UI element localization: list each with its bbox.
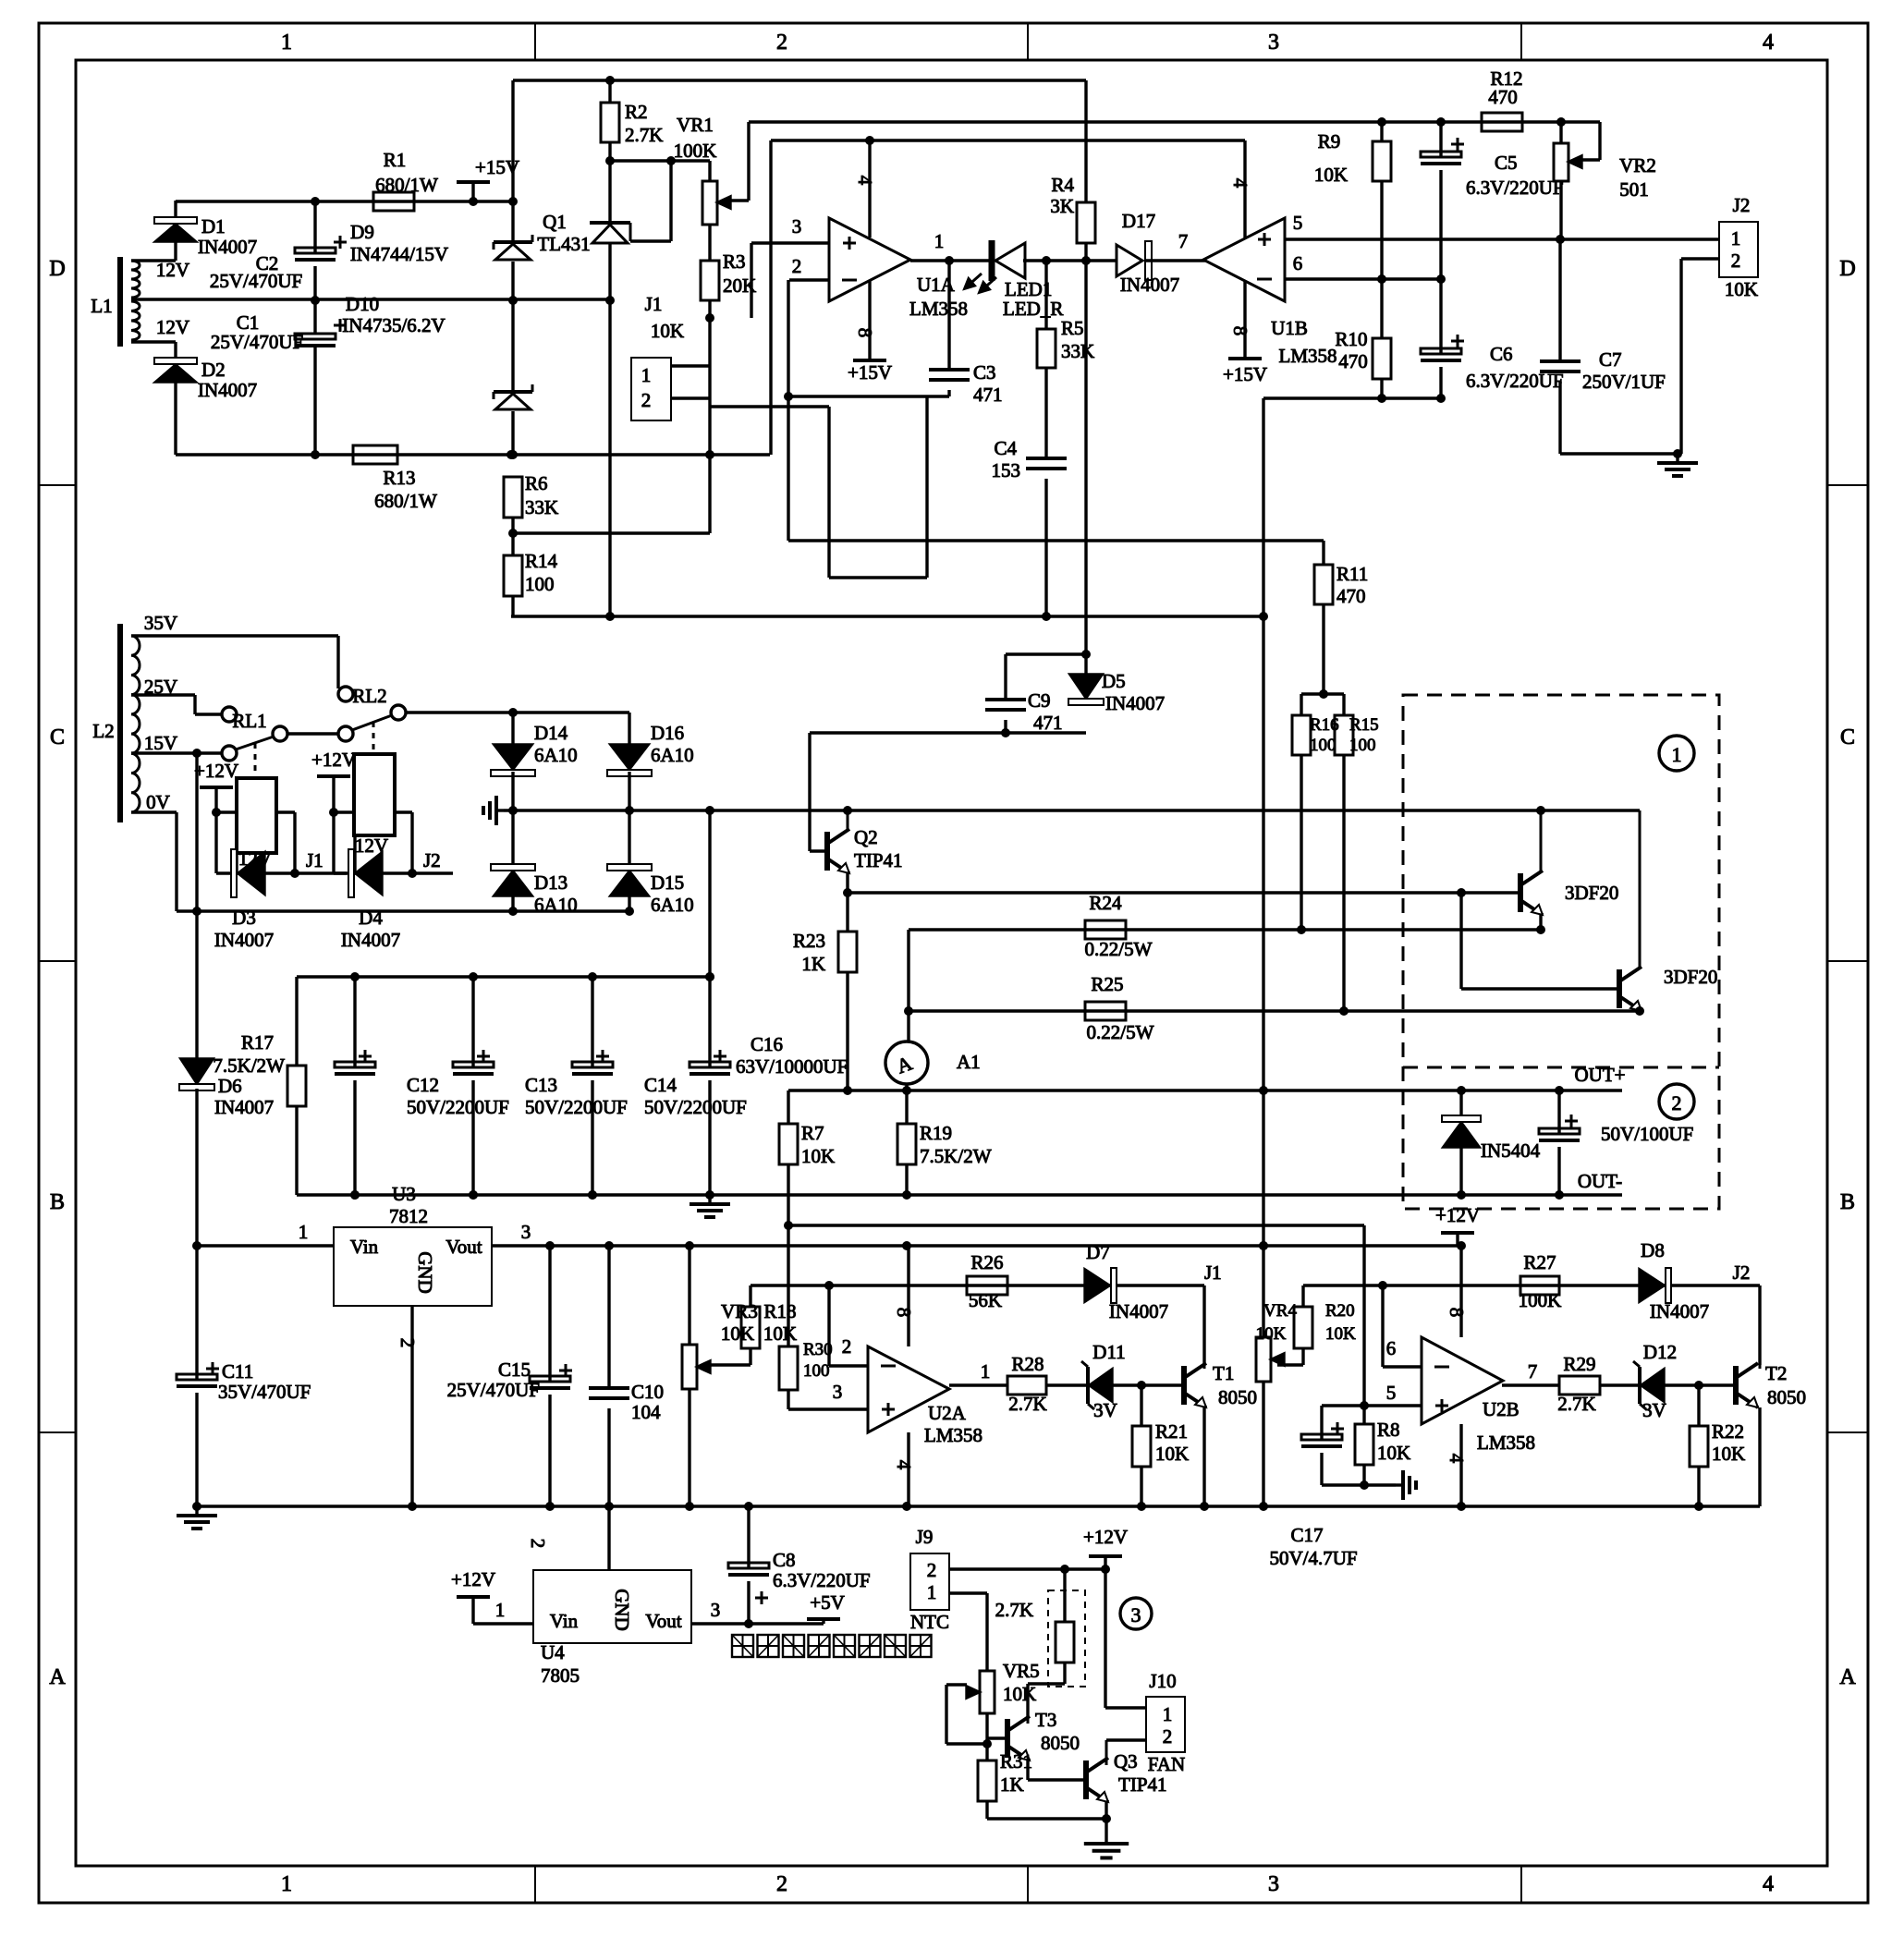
svg-text:C14: C14 (644, 1074, 677, 1096)
svg-text:J2: J2 (1733, 1261, 1751, 1284)
svg-text:IN4007: IN4007 (214, 1096, 274, 1118)
svg-text:100K: 100K (1519, 1289, 1562, 1311)
svg-text:TIP41: TIP41 (1118, 1773, 1167, 1796)
svg-text:VR3: VR3 (721, 1300, 758, 1322)
svg-text:R19: R19 (920, 1122, 952, 1144)
svg-text:LM358: LM358 (1279, 345, 1337, 367)
svg-text:R2: R2 (625, 101, 648, 123)
svg-text:6: 6 (1386, 1337, 1397, 1359)
svg-text:A: A (49, 1665, 66, 1689)
svg-text:6A10: 6A10 (651, 894, 694, 916)
svg-text:R21: R21 (1155, 1420, 1188, 1443)
svg-text:4: 4 (1446, 1454, 1468, 1464)
svg-text:7: 7 (1178, 230, 1189, 252)
svg-text:100K: 100K (674, 140, 717, 162)
svg-text:+15V: +15V (848, 361, 892, 384)
svg-text:U4: U4 (541, 1641, 565, 1663)
svg-text:50V/2200UF: 50V/2200UF (407, 1096, 509, 1118)
svg-text:IN4007: IN4007 (1650, 1300, 1709, 1322)
svg-text:C: C (50, 725, 65, 749)
svg-text:D12: D12 (1643, 1341, 1677, 1363)
svg-text:3DF20: 3DF20 (1565, 882, 1618, 904)
svg-text:C8: C8 (773, 1549, 796, 1571)
svg-text:RL2: RL2 (352, 685, 386, 707)
svg-text:10K: 10K (1325, 1324, 1356, 1344)
svg-text:C17: C17 (1290, 1524, 1323, 1546)
svg-text:R17: R17 (241, 1031, 274, 1054)
svg-text:50V/2200UF: 50V/2200UF (644, 1096, 747, 1118)
svg-text:GND: GND (611, 1589, 633, 1631)
svg-text:250V/1UF: 250V/1UF (1582, 371, 1666, 393)
svg-text:100: 100 (1349, 736, 1376, 755)
svg-text:63V/10000UF: 63V/10000UF (736, 1055, 848, 1078)
svg-text:5: 5 (1386, 1382, 1397, 1404)
svg-text:IN4007: IN4007 (341, 929, 400, 951)
svg-text:2: 2 (776, 30, 787, 55)
svg-text:D15: D15 (651, 871, 684, 894)
svg-text:R3: R3 (723, 250, 746, 273)
svg-text:8050: 8050 (1041, 1732, 1080, 1754)
svg-text:2.7K: 2.7K (1557, 1393, 1595, 1415)
svg-text:+5V: +5V (810, 1591, 845, 1614)
svg-text:NTC: NTC (910, 1611, 949, 1633)
svg-text:B: B (50, 1190, 65, 1214)
svg-text:IN4007: IN4007 (198, 379, 257, 401)
svg-text:D: D (49, 257, 65, 281)
svg-text:R18: R18 (763, 1300, 796, 1322)
svg-text:C3: C3 (973, 361, 996, 384)
svg-text:VR4: VR4 (1263, 1301, 1297, 1321)
svg-text:7.5K/2W: 7.5K/2W (920, 1145, 992, 1167)
svg-text:D1: D1 (201, 215, 226, 238)
svg-text:C6: C6 (1490, 343, 1513, 365)
svg-text:35V/470UF: 35V/470UF (218, 1381, 311, 1403)
svg-text:R22: R22 (1712, 1420, 1744, 1443)
svg-text:Q2: Q2 (854, 826, 878, 848)
svg-text:R16: R16 (1310, 715, 1339, 735)
svg-text:D: D (1839, 257, 1855, 281)
svg-text:33K: 33K (1061, 340, 1094, 362)
svg-text:R6: R6 (525, 472, 548, 494)
svg-text:470: 470 (1336, 585, 1366, 607)
svg-text:153: 153 (992, 459, 1021, 481)
svg-text:D11: D11 (1092, 1341, 1125, 1363)
svg-text:471: 471 (1033, 712, 1063, 734)
svg-text:4: 4 (1229, 178, 1251, 189)
svg-text:J1: J1 (306, 849, 323, 871)
svg-text:IN4007: IN4007 (1105, 692, 1165, 714)
svg-text:R4: R4 (1051, 174, 1074, 196)
svg-text:LM358: LM358 (1477, 1431, 1535, 1454)
svg-text:D14: D14 (534, 722, 568, 744)
svg-text:8050: 8050 (1767, 1386, 1806, 1408)
svg-text:R1: R1 (384, 149, 407, 171)
svg-text:7812: 7812 (389, 1205, 428, 1227)
svg-text:10K: 10K (1155, 1443, 1189, 1465)
svg-text:L1: L1 (91, 295, 112, 317)
svg-text:15V: 15V (144, 732, 177, 754)
svg-text:R24: R24 (1089, 892, 1122, 914)
svg-text:Q3: Q3 (1114, 1750, 1138, 1773)
svg-text:3V: 3V (1093, 1399, 1117, 1421)
svg-text:D10: D10 (346, 293, 379, 315)
svg-text:Vin: Vin (550, 1610, 579, 1632)
svg-text:LM358: LM358 (909, 298, 968, 320)
svg-text:C13: C13 (525, 1074, 557, 1096)
svg-text:T2: T2 (1765, 1362, 1787, 1384)
svg-text:Vin: Vin (350, 1236, 379, 1258)
svg-text:C11: C11 (222, 1360, 253, 1383)
svg-text:3: 3 (792, 215, 802, 238)
svg-text:8: 8 (893, 1308, 915, 1318)
svg-text:470: 470 (1338, 350, 1368, 372)
svg-text:U1B: U1B (1271, 317, 1308, 339)
svg-text:+12V: +12V (451, 1568, 495, 1590)
svg-text:1: 1 (934, 230, 945, 252)
svg-text:2.7K: 2.7K (995, 1599, 1033, 1621)
svg-text:3: 3 (1268, 30, 1279, 55)
svg-text:D13: D13 (534, 871, 568, 894)
svg-text:TIP41: TIP41 (854, 849, 903, 871)
svg-text:0.22/5W: 0.22/5W (1085, 938, 1153, 960)
svg-text:3: 3 (833, 1381, 843, 1403)
svg-text:J2: J2 (423, 849, 441, 871)
svg-text:8: 8 (854, 328, 876, 338)
svg-text:25V/470UF: 25V/470UF (210, 270, 302, 292)
svg-text:10K: 10K (801, 1145, 835, 1167)
svg-text:10K: 10K (1314, 164, 1348, 186)
svg-text:100: 100 (525, 573, 555, 595)
svg-text:R7: R7 (801, 1122, 824, 1144)
svg-text:+12V: +12V (1435, 1204, 1480, 1226)
svg-text:104: 104 (631, 1401, 661, 1423)
svg-text:12V: 12V (355, 834, 388, 857)
svg-text:IN4007: IN4007 (214, 929, 274, 951)
svg-text:R29: R29 (1563, 1353, 1595, 1375)
svg-text:2: 2 (1672, 1091, 1682, 1115)
svg-text:2.7K: 2.7K (1008, 1393, 1046, 1415)
svg-text:Q1: Q1 (543, 211, 567, 233)
svg-text:4: 4 (854, 176, 876, 186)
svg-text:10K: 10K (1003, 1683, 1036, 1705)
svg-text:U2A: U2A (928, 1402, 967, 1424)
svg-text:IN4007: IN4007 (1120, 274, 1179, 296)
svg-text:OUT+: OUT+ (1574, 1064, 1625, 1086)
svg-text:8: 8 (1446, 1308, 1468, 1318)
svg-text:470: 470 (1488, 86, 1518, 108)
svg-text:IN4007: IN4007 (198, 236, 257, 258)
svg-text:LED_R: LED_R (1003, 298, 1063, 320)
svg-text:1: 1 (281, 1872, 292, 1896)
svg-text:25V/470UF: 25V/470UF (447, 1379, 540, 1401)
svg-text:L2: L2 (92, 720, 114, 742)
svg-text:1: 1 (299, 1221, 309, 1243)
svg-text:10K: 10K (651, 320, 684, 342)
svg-text:12V: 12V (156, 316, 189, 338)
svg-text:+15V: +15V (1223, 363, 1267, 385)
svg-text:A: A (1839, 1665, 1856, 1689)
svg-text:10K: 10K (1712, 1443, 1745, 1465)
svg-text:6.3V/220UF: 6.3V/220UF (773, 1569, 871, 1591)
svg-text:10K: 10K (1725, 278, 1758, 300)
svg-text:1: 1 (981, 1360, 991, 1383)
svg-text:10K: 10K (721, 1322, 754, 1345)
svg-text:35V: 35V (144, 612, 177, 634)
svg-text:C7: C7 (1599, 348, 1622, 371)
svg-text:10K: 10K (1377, 1442, 1410, 1464)
svg-text:+12V: +12V (1083, 1526, 1128, 1548)
svg-text:+12V: +12V (311, 749, 356, 771)
svg-text:R10: R10 (1335, 328, 1367, 350)
svg-text:R31: R31 (1000, 1750, 1032, 1773)
svg-text:Vout: Vout (445, 1236, 482, 1258)
svg-text:C5: C5 (1495, 152, 1518, 174)
svg-text:R23: R23 (793, 930, 825, 952)
svg-text:C12: C12 (407, 1074, 439, 1096)
svg-text:680/1W: 680/1W (374, 490, 437, 512)
svg-text:U3: U3 (392, 1183, 416, 1205)
svg-text:3: 3 (1131, 1603, 1141, 1626)
svg-text:T1: T1 (1213, 1362, 1234, 1384)
svg-text:2: 2 (527, 1539, 549, 1549)
svg-text:J1: J1 (645, 293, 663, 315)
svg-text:C4: C4 (994, 437, 1017, 459)
svg-text:6A10: 6A10 (651, 744, 694, 766)
svg-text:1K: 1K (1000, 1773, 1024, 1796)
svg-text:R8: R8 (1377, 1419, 1400, 1441)
svg-text:2.7K: 2.7K (625, 124, 663, 146)
svg-text:RL1: RL1 (232, 710, 266, 732)
svg-text:U2B: U2B (1483, 1398, 1520, 1420)
svg-text:FAN: FAN (1148, 1753, 1185, 1775)
svg-text:2: 2 (1163, 1725, 1173, 1748)
svg-text:12V: 12V (238, 847, 272, 870)
svg-text:7805: 7805 (541, 1664, 580, 1687)
svg-text:501: 501 (1619, 178, 1649, 201)
svg-text:3K: 3K (1050, 195, 1074, 217)
svg-text:1: 1 (641, 364, 652, 386)
svg-text:D2: D2 (201, 359, 226, 381)
svg-text:C10: C10 (631, 1381, 664, 1403)
svg-text:VR2: VR2 (1619, 154, 1656, 177)
svg-text:10K: 10K (763, 1322, 797, 1345)
svg-text:7.5K/2W: 7.5K/2W (213, 1054, 285, 1077)
svg-text:50V/4.7UF: 50V/4.7UF (1269, 1547, 1357, 1569)
svg-text:R9: R9 (1318, 130, 1341, 152)
svg-text:0.22/5W: 0.22/5W (1087, 1021, 1154, 1043)
svg-text:471: 471 (973, 384, 1003, 406)
svg-text:3V: 3V (1642, 1399, 1666, 1421)
svg-text:100: 100 (1310, 736, 1336, 755)
svg-text:D7: D7 (1086, 1241, 1110, 1263)
svg-text:D6: D6 (218, 1075, 242, 1097)
svg-text:R11: R11 (1336, 563, 1368, 585)
svg-text:100: 100 (803, 1361, 830, 1381)
svg-text:6.3V/220UF: 6.3V/220UF (1466, 177, 1564, 199)
svg-text:IN4735/6.2V: IN4735/6.2V (342, 314, 445, 336)
svg-text:4: 4 (1763, 30, 1774, 55)
svg-text:50V/2200UF: 50V/2200UF (525, 1096, 628, 1118)
svg-text:B: B (1840, 1190, 1855, 1214)
svg-text:2: 2 (792, 255, 802, 277)
svg-text:2: 2 (1731, 250, 1741, 272)
svg-text:1: 1 (927, 1581, 937, 1603)
svg-text:33K: 33K (525, 496, 558, 518)
svg-text:1K: 1K (801, 953, 825, 975)
svg-text:VR5: VR5 (1003, 1660, 1040, 1682)
svg-text:6A10: 6A10 (534, 744, 578, 766)
svg-text:R26: R26 (970, 1251, 1003, 1273)
svg-text:0V: 0V (146, 791, 170, 813)
svg-text:Vout: Vout (645, 1610, 681, 1632)
svg-text:R27: R27 (1523, 1251, 1556, 1273)
svg-text:2: 2 (776, 1872, 787, 1896)
svg-text:680/1W: 680/1W (375, 174, 438, 196)
svg-text:56K: 56K (969, 1289, 1002, 1311)
svg-text:2: 2 (842, 1335, 852, 1358)
svg-text:2: 2 (641, 389, 652, 411)
svg-text:R15: R15 (1349, 715, 1379, 735)
svg-text:D8: D8 (1641, 1239, 1665, 1261)
svg-text:3: 3 (711, 1599, 721, 1621)
svg-text:D5: D5 (1102, 670, 1126, 692)
svg-text:1: 1 (1672, 743, 1682, 766)
svg-text:OUT-: OUT- (1578, 1170, 1622, 1192)
svg-text:5: 5 (1293, 212, 1303, 234)
svg-text:1: 1 (281, 30, 292, 55)
svg-text:12V: 12V (156, 259, 189, 281)
svg-text:7: 7 (1528, 1360, 1538, 1383)
svg-text:C: C (1840, 725, 1855, 749)
svg-text:R25: R25 (1091, 973, 1123, 995)
svg-text:D9: D9 (350, 221, 374, 243)
svg-text:R14: R14 (525, 550, 558, 572)
svg-text:VR1: VR1 (677, 114, 714, 136)
svg-text:50V/100UF: 50V/100UF (1601, 1123, 1693, 1145)
svg-text:10K: 10K (1256, 1324, 1287, 1344)
svg-text:6: 6 (1293, 252, 1303, 274)
svg-text:D16: D16 (651, 722, 684, 744)
svg-text:4: 4 (1763, 1872, 1774, 1896)
svg-text:R5: R5 (1061, 317, 1084, 339)
svg-text:TL431: TL431 (537, 233, 590, 255)
svg-text:3: 3 (521, 1221, 531, 1243)
svg-text:3: 3 (1268, 1872, 1279, 1896)
svg-text:R20: R20 (1325, 1301, 1355, 1321)
svg-text:J10: J10 (1149, 1670, 1176, 1692)
svg-text:GND: GND (414, 1251, 436, 1294)
svg-text:4: 4 (893, 1460, 915, 1470)
svg-text:1: 1 (1731, 227, 1741, 250)
svg-text:IN5404: IN5404 (1481, 1139, 1541, 1162)
svg-text:J2: J2 (1733, 194, 1751, 216)
svg-text:8: 8 (1229, 326, 1251, 336)
svg-text:1: 1 (1163, 1703, 1173, 1725)
svg-text:+12V: +12V (194, 760, 238, 782)
svg-text:T3: T3 (1035, 1709, 1056, 1731)
svg-text:25V/470UF: 25V/470UF (211, 331, 303, 353)
svg-text:IN4007: IN4007 (1109, 1300, 1168, 1322)
svg-text:R28: R28 (1011, 1353, 1044, 1375)
svg-text:C9: C9 (1028, 689, 1051, 712)
svg-text:2: 2 (927, 1559, 937, 1581)
svg-text:3DF20: 3DF20 (1664, 966, 1717, 988)
svg-text:IN4744/15V: IN4744/15V (350, 243, 448, 265)
svg-text:8050: 8050 (1218, 1386, 1257, 1408)
svg-text:R13: R13 (383, 467, 415, 489)
svg-text:1: 1 (495, 1599, 506, 1621)
svg-text:A: A (894, 1051, 916, 1078)
svg-text:2: 2 (397, 1338, 419, 1348)
svg-text:C15: C15 (498, 1358, 531, 1381)
svg-text:A1: A1 (957, 1051, 981, 1073)
svg-text:D17: D17 (1122, 210, 1155, 232)
svg-text:C16: C16 (751, 1033, 783, 1055)
svg-text:J9: J9 (916, 1526, 934, 1548)
svg-text:J1: J1 (1204, 1261, 1222, 1284)
svg-text:LM358: LM358 (924, 1424, 983, 1446)
